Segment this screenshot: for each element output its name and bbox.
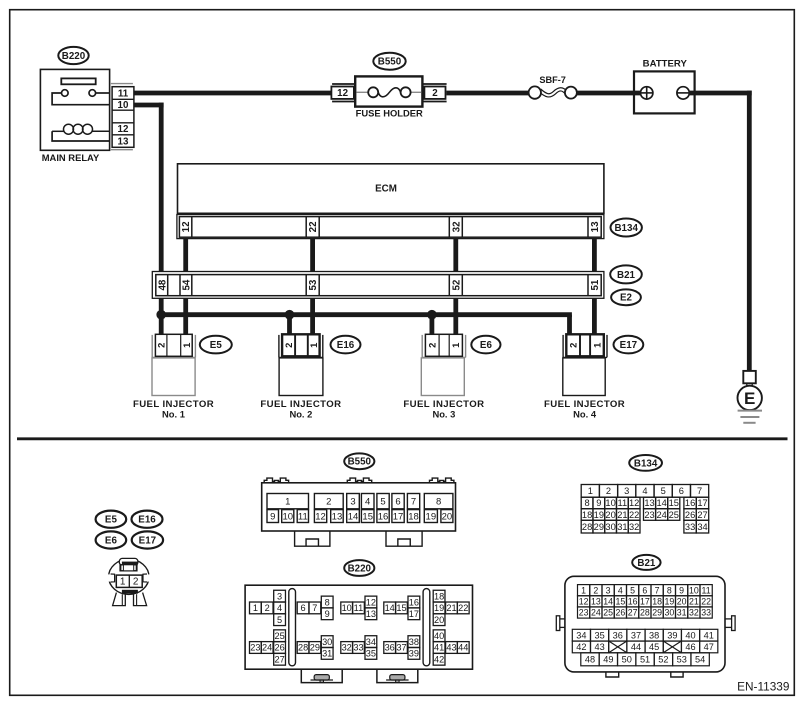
svg-text:46: 46	[685, 642, 695, 652]
svg-text:E: E	[744, 389, 755, 408]
svg-text:2: 2	[606, 486, 611, 496]
svg-text:2: 2	[427, 343, 438, 348]
svg-text:3: 3	[350, 496, 355, 507]
svg-text:9: 9	[325, 609, 330, 619]
svg-text:15: 15	[396, 603, 406, 613]
svg-text:47: 47	[704, 642, 714, 652]
svg-text:3: 3	[277, 591, 282, 601]
svg-text:6: 6	[301, 603, 306, 613]
svg-text:4: 4	[618, 585, 623, 595]
svg-text:16: 16	[409, 597, 419, 607]
svg-text:49: 49	[603, 655, 613, 665]
svg-text:28: 28	[640, 608, 650, 618]
svg-text:54: 54	[695, 655, 705, 665]
svg-text:No. 1: No. 1	[162, 409, 185, 420]
svg-text:12: 12	[181, 221, 192, 232]
svg-text:28: 28	[298, 643, 308, 653]
svg-text:B550: B550	[348, 457, 372, 468]
svg-text:24: 24	[262, 643, 272, 653]
svg-text:1: 1	[308, 343, 319, 348]
svg-text:54: 54	[181, 279, 192, 290]
svg-text:27: 27	[628, 608, 638, 618]
svg-text:31: 31	[322, 649, 332, 659]
svg-text:23: 23	[250, 643, 260, 653]
svg-text:33: 33	[701, 608, 711, 618]
svg-text:1: 1	[450, 343, 461, 348]
svg-text:3: 3	[606, 585, 611, 595]
svg-text:10: 10	[689, 585, 699, 595]
svg-text:14: 14	[348, 511, 359, 522]
svg-text:13: 13	[590, 221, 601, 232]
svg-text:23: 23	[579, 608, 589, 618]
svg-text:21: 21	[446, 603, 456, 613]
svg-text:32: 32	[689, 608, 699, 618]
svg-text:10: 10	[282, 511, 293, 522]
svg-text:52: 52	[451, 279, 462, 290]
svg-text:39: 39	[667, 630, 677, 640]
svg-text:5: 5	[661, 486, 666, 496]
svg-text:17: 17	[409, 609, 419, 619]
svg-text:BATTERY: BATTERY	[643, 59, 688, 70]
svg-text:14: 14	[385, 603, 395, 613]
svg-text:16: 16	[628, 596, 638, 606]
svg-text:4: 4	[365, 496, 370, 507]
svg-text:5: 5	[277, 615, 282, 625]
svg-text:6: 6	[642, 585, 647, 595]
svg-text:28: 28	[582, 522, 592, 532]
svg-text:22: 22	[701, 596, 711, 606]
svg-text:17: 17	[697, 498, 707, 508]
svg-text:E16: E16	[138, 515, 156, 526]
svg-text:31: 31	[677, 608, 687, 618]
svg-text:18: 18	[434, 591, 444, 601]
svg-text:31: 31	[617, 522, 627, 532]
svg-text:25: 25	[274, 631, 284, 641]
svg-text:19: 19	[426, 511, 437, 522]
svg-text:FUSE HOLDER: FUSE HOLDER	[356, 108, 423, 119]
svg-text:7: 7	[697, 486, 702, 496]
svg-text:20: 20	[434, 615, 444, 625]
svg-text:1: 1	[120, 577, 126, 588]
svg-text:30: 30	[322, 637, 332, 647]
svg-text:10: 10	[342, 603, 352, 613]
svg-text:8: 8	[667, 585, 672, 595]
svg-text:9: 9	[270, 511, 275, 522]
svg-text:32: 32	[451, 221, 462, 232]
svg-text:EN-11339: EN-11339	[737, 679, 789, 693]
svg-text:20: 20	[677, 596, 687, 606]
svg-text:21: 21	[617, 510, 627, 520]
svg-text:25: 25	[669, 510, 679, 520]
svg-text:27: 27	[274, 655, 284, 665]
svg-text:B21: B21	[617, 270, 636, 281]
svg-text:34: 34	[697, 522, 707, 532]
svg-text:38: 38	[649, 630, 659, 640]
svg-text:51: 51	[640, 655, 650, 665]
svg-text:41: 41	[704, 630, 714, 640]
svg-text:21: 21	[689, 596, 699, 606]
svg-text:B220: B220	[62, 51, 86, 62]
svg-text:B134: B134	[634, 458, 658, 469]
svg-text:E2: E2	[620, 293, 633, 304]
svg-text:40: 40	[434, 631, 444, 641]
svg-text:18: 18	[408, 511, 419, 522]
svg-text:18: 18	[582, 510, 592, 520]
svg-text:E17: E17	[139, 535, 157, 546]
svg-text:23: 23	[644, 510, 654, 520]
svg-text:1: 1	[181, 343, 192, 348]
svg-text:29: 29	[594, 522, 604, 532]
svg-text:30: 30	[664, 608, 674, 618]
svg-text:22: 22	[458, 603, 468, 613]
svg-text:12: 12	[315, 511, 326, 522]
svg-text:9: 9	[679, 585, 684, 595]
svg-text:19: 19	[664, 596, 674, 606]
svg-text:12: 12	[579, 596, 589, 606]
svg-text:12: 12	[118, 124, 129, 135]
svg-text:8: 8	[325, 597, 330, 607]
svg-text:19: 19	[594, 510, 604, 520]
svg-text:3: 3	[624, 486, 629, 496]
svg-text:13: 13	[332, 511, 343, 522]
svg-text:24: 24	[591, 608, 601, 618]
svg-text:32: 32	[342, 643, 352, 653]
svg-text:12: 12	[366, 597, 376, 607]
svg-text:10: 10	[118, 100, 129, 111]
svg-text:2: 2	[133, 577, 139, 588]
svg-text:50: 50	[622, 655, 632, 665]
svg-text:B550: B550	[378, 57, 402, 68]
svg-text:1: 1	[581, 585, 586, 595]
svg-text:39: 39	[409, 649, 419, 659]
svg-text:2: 2	[432, 88, 438, 99]
svg-text:30: 30	[605, 522, 615, 532]
svg-text:45: 45	[649, 642, 659, 652]
svg-text:B220: B220	[348, 563, 372, 574]
svg-text:4: 4	[642, 486, 647, 496]
svg-text:25: 25	[603, 608, 613, 618]
svg-text:8: 8	[584, 498, 589, 508]
svg-text:44: 44	[631, 642, 641, 652]
svg-text:37: 37	[631, 630, 641, 640]
svg-text:E16: E16	[337, 340, 355, 351]
svg-text:B134: B134	[614, 223, 638, 234]
svg-text:37: 37	[396, 643, 406, 653]
svg-text:1: 1	[253, 603, 258, 613]
svg-text:13: 13	[366, 609, 376, 619]
svg-text:51: 51	[590, 279, 601, 290]
svg-text:E6: E6	[480, 340, 493, 351]
svg-text:16: 16	[685, 498, 695, 508]
svg-text:2: 2	[567, 343, 578, 348]
svg-text:13: 13	[591, 596, 601, 606]
svg-text:36: 36	[385, 643, 395, 653]
svg-text:40: 40	[685, 630, 695, 640]
svg-text:11: 11	[118, 88, 129, 99]
svg-text:6: 6	[395, 496, 400, 507]
svg-text:53: 53	[677, 655, 687, 665]
svg-text:14: 14	[603, 596, 613, 606]
svg-text:4: 4	[277, 603, 282, 613]
svg-text:29: 29	[652, 608, 662, 618]
svg-text:17: 17	[393, 511, 404, 522]
svg-text:19: 19	[434, 603, 444, 613]
svg-text:26: 26	[274, 643, 284, 653]
svg-text:20: 20	[605, 510, 615, 520]
svg-text:No. 4: No. 4	[573, 409, 597, 420]
svg-text:2: 2	[593, 585, 598, 595]
svg-text:E5: E5	[210, 340, 223, 351]
svg-text:29: 29	[310, 643, 320, 653]
svg-text:17: 17	[640, 596, 650, 606]
svg-text:2: 2	[265, 603, 270, 613]
svg-text:15: 15	[615, 596, 625, 606]
svg-text:13: 13	[644, 498, 654, 508]
svg-text:11: 11	[618, 498, 628, 508]
svg-text:1: 1	[588, 486, 593, 496]
svg-text:5: 5	[630, 585, 635, 595]
svg-text:24: 24	[656, 510, 666, 520]
svg-text:7: 7	[655, 585, 660, 595]
svg-text:2: 2	[326, 496, 331, 507]
svg-text:53: 53	[308, 279, 319, 290]
svg-text:42: 42	[576, 642, 586, 652]
svg-text:14: 14	[656, 498, 666, 508]
svg-text:No. 3: No. 3	[432, 409, 455, 420]
svg-text:27: 27	[697, 510, 707, 520]
svg-text:10: 10	[605, 498, 615, 508]
svg-text:15: 15	[362, 511, 373, 522]
svg-text:9: 9	[596, 498, 601, 508]
svg-text:41: 41	[434, 643, 444, 653]
svg-text:26: 26	[685, 510, 695, 520]
svg-text:12: 12	[337, 88, 348, 99]
svg-text:2: 2	[155, 343, 166, 348]
svg-text:33: 33	[685, 522, 695, 532]
svg-text:MAIN RELAY: MAIN RELAY	[42, 152, 100, 163]
svg-text:38: 38	[409, 637, 419, 647]
svg-text:5: 5	[380, 496, 385, 507]
svg-text:34: 34	[366, 637, 376, 647]
svg-text:26: 26	[615, 608, 625, 618]
svg-text:6: 6	[679, 486, 684, 496]
svg-text:35: 35	[366, 649, 376, 659]
svg-text:12: 12	[629, 498, 639, 508]
svg-text:32: 32	[629, 522, 639, 532]
svg-text:No. 2: No. 2	[289, 409, 312, 420]
svg-text:43: 43	[594, 642, 604, 652]
svg-text:33: 33	[353, 643, 363, 653]
svg-text:22: 22	[629, 510, 639, 520]
svg-text:8: 8	[436, 496, 441, 507]
svg-text:7: 7	[411, 496, 416, 507]
svg-text:15: 15	[669, 498, 679, 508]
svg-text:44: 44	[458, 643, 468, 653]
svg-text:11: 11	[702, 585, 711, 595]
svg-text:1: 1	[591, 343, 602, 348]
svg-text:16: 16	[378, 511, 389, 522]
svg-text:ECM: ECM	[375, 184, 397, 195]
svg-text:42: 42	[434, 655, 444, 665]
svg-text:48: 48	[585, 655, 595, 665]
svg-text:48: 48	[157, 279, 168, 290]
svg-text:E17: E17	[620, 340, 638, 351]
svg-text:E6: E6	[105, 535, 118, 546]
svg-text:13: 13	[118, 136, 129, 147]
svg-text:1: 1	[285, 496, 290, 507]
svg-text:11: 11	[298, 511, 308, 522]
svg-text:20: 20	[442, 511, 453, 522]
svg-text:2: 2	[283, 343, 294, 348]
svg-text:7: 7	[312, 603, 317, 613]
svg-text:11: 11	[354, 603, 364, 613]
svg-text:43: 43	[446, 643, 456, 653]
svg-text:22: 22	[308, 221, 319, 232]
svg-text:36: 36	[613, 630, 623, 640]
svg-text:35: 35	[594, 630, 604, 640]
svg-text:18: 18	[652, 596, 662, 606]
svg-text:SBF-7: SBF-7	[539, 75, 566, 85]
svg-text:34: 34	[576, 630, 586, 640]
svg-text:52: 52	[658, 655, 668, 665]
svg-text:E5: E5	[105, 515, 118, 526]
svg-text:B21: B21	[637, 558, 656, 569]
